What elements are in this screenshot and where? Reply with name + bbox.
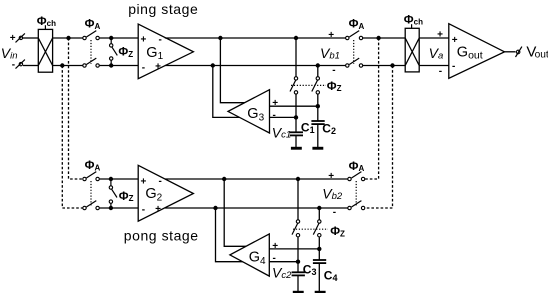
switch PhiZ to C2 [312, 77, 320, 94]
ground under C1 [291, 147, 302, 150]
wire top to G3 upper output [220, 38, 246, 103]
wire Vb1 bottom to chopper2 [363, 65, 405, 67]
switch PhiZ to C4 [313, 220, 321, 237]
switch PhiA ping bottom [83, 58, 100, 67]
switch PhiA Vb1 bottom [346, 58, 363, 67]
chopper CH1 [38, 25, 52, 72]
wire G3 - input row [270, 116, 297, 118]
wire right PhiZ column upper [317, 66, 319, 77]
svg-text:-: - [142, 62, 145, 73]
svg-text:+: + [437, 29, 443, 40]
wire Vb1 top to chopper2 [363, 37, 405, 39]
svg-text:-: - [452, 61, 455, 72]
ganged link PhiA Vb2 [355, 181, 357, 207]
svg-text:-: - [439, 66, 442, 77]
svg-text:+: + [155, 62, 161, 73]
wire dashed input top to pong stage [69, 38, 83, 179]
input break symbol bottom [16, 60, 25, 69]
wire G2 out bottom [165, 207, 350, 209]
junction node bottom wire to PhiZ cap switch right [316, 63, 320, 67]
wire chopper to PhiA switches (top) [53, 37, 85, 39]
switch PhiA pong top [83, 172, 100, 181]
wire dashed pong top return [365, 38, 379, 179]
wire right PhiZ column lower [317, 94, 319, 106]
wire dashed input bottom to pong stage [62, 66, 82, 209]
switch PhiA Vb1 top [346, 31, 363, 40]
ground under C3 [293, 291, 304, 293]
op-amp G4 [230, 234, 269, 276]
svg-text:+: + [328, 30, 334, 41]
wire top to G4 upper output [224, 179, 247, 246]
wire Vin+ to chopper [23, 37, 38, 39]
op-amp G2 [138, 165, 193, 221]
wire left PhiZ pong column upper [297, 179, 299, 220]
wire bottom to G3 lower output [213, 66, 240, 118]
junction node top wire to PhiZ cap switch left [294, 36, 298, 40]
chopper CH2 [405, 24, 419, 72]
wire bottom to G4 lower output [216, 208, 245, 262]
wire left PhiZ column lower [295, 94, 297, 117]
wire Vin- to chopper [23, 65, 38, 67]
wire G1 out bottom [165, 65, 347, 67]
svg-text:out: out [535, 49, 548, 60]
ground under C4 [315, 291, 326, 293]
wire PhiA to G1 (top) [100, 37, 139, 39]
switch PhiA pong bottom [83, 201, 100, 210]
capacitor C2 [311, 106, 324, 147]
output break symbol [516, 47, 522, 57]
svg-text:+: + [10, 33, 16, 44]
svg-text:-: - [332, 65, 335, 76]
wire PhiA to G1 (bottom) [100, 65, 139, 67]
switch PhiZ ping input short [109, 36, 117, 68]
wire G4 + input row [269, 248, 319, 250]
ganged link PhiZ caps pong [293, 228, 328, 230]
wire left PhiZ pong column lower [297, 237, 299, 262]
junction node bottom (pong return) [390, 63, 394, 67]
switch PhiZ to C1 [290, 77, 298, 94]
junction node top (to pong) [66, 36, 70, 40]
svg-text:-: - [159, 176, 162, 187]
wire right PhiZ pong column lower [318, 237, 320, 249]
wire G1 out top [165, 37, 347, 39]
ganged link PhiA pong [90, 181, 92, 207]
wire PhiA to G2 (bottom) [100, 207, 139, 209]
wire PhiA to G2 (top) [100, 178, 139, 180]
capacitor C3 [292, 262, 305, 291]
junction node bottom (to pong) [60, 63, 64, 67]
op-amp Gout [449, 24, 505, 79]
wire G2 out top [165, 178, 350, 180]
switch PhiZ pong input short [109, 177, 117, 210]
junction node top to G3 [218, 36, 222, 40]
svg-text:+: + [328, 171, 334, 182]
op-amp G3 [228, 90, 270, 133]
junction node pong top wire to PhiZ cap switch left [296, 177, 300, 181]
switch PhiA Vb2 bottom [348, 201, 365, 210]
wire right PhiZ pong column upper [318, 208, 320, 220]
ganged link PhiA Vb1 [353, 40, 355, 64]
svg-text:ping stage: ping stage [128, 1, 198, 17]
svg-text:+: + [272, 98, 278, 109]
svg-text:-: - [142, 205, 145, 216]
capacitor C1 [290, 117, 303, 147]
wire G3 + input row [270, 105, 318, 107]
wire dashed pong bottom return [365, 66, 393, 209]
svg-text:pong stage: pong stage [124, 228, 199, 244]
op-amp G1 [138, 24, 193, 79]
junction node bottom to G3 [211, 63, 215, 67]
svg-text:-: - [159, 34, 162, 45]
junction node bottom to G4 [213, 206, 217, 210]
junction node C1 / G3 minus [294, 115, 298, 119]
switch PhiA Vb2 top [348, 172, 365, 181]
svg-text:-: - [12, 60, 15, 71]
junction node top to G4 [222, 177, 226, 181]
ganged link PhiZ caps ping [291, 84, 326, 86]
wire G4 - input row [269, 261, 298, 263]
wire chopper to PhiA switches (bottom) [53, 65, 85, 67]
input break symbol top [16, 33, 25, 42]
svg-text:+: + [141, 34, 147, 45]
switch PhiZ to C3 [292, 220, 300, 237]
junction node C4 / G4 plus [317, 247, 321, 251]
junction node C2 / G3 plus [316, 104, 320, 108]
wire chopper2 to Gout top [419, 37, 449, 39]
wire left PhiZ column upper [295, 38, 297, 76]
capacitor C4 [313, 249, 326, 291]
svg-text:-: - [333, 207, 336, 218]
wire Gout output [505, 51, 516, 53]
junction node top (pong return) [376, 36, 380, 40]
junction node pong bottom wire to PhiZ cap switch right [317, 206, 321, 210]
junction node C3 / G4 minus [296, 260, 300, 264]
svg-text:+: + [272, 241, 278, 252]
switch PhiA ping top [83, 31, 100, 40]
ground under C2 [312, 147, 323, 150]
svg-text:+: + [155, 204, 161, 215]
ganged link PhiA ping [90, 40, 92, 64]
wire chopper2 to Gout bottom [419, 65, 449, 67]
svg-text:-: - [273, 110, 276, 121]
